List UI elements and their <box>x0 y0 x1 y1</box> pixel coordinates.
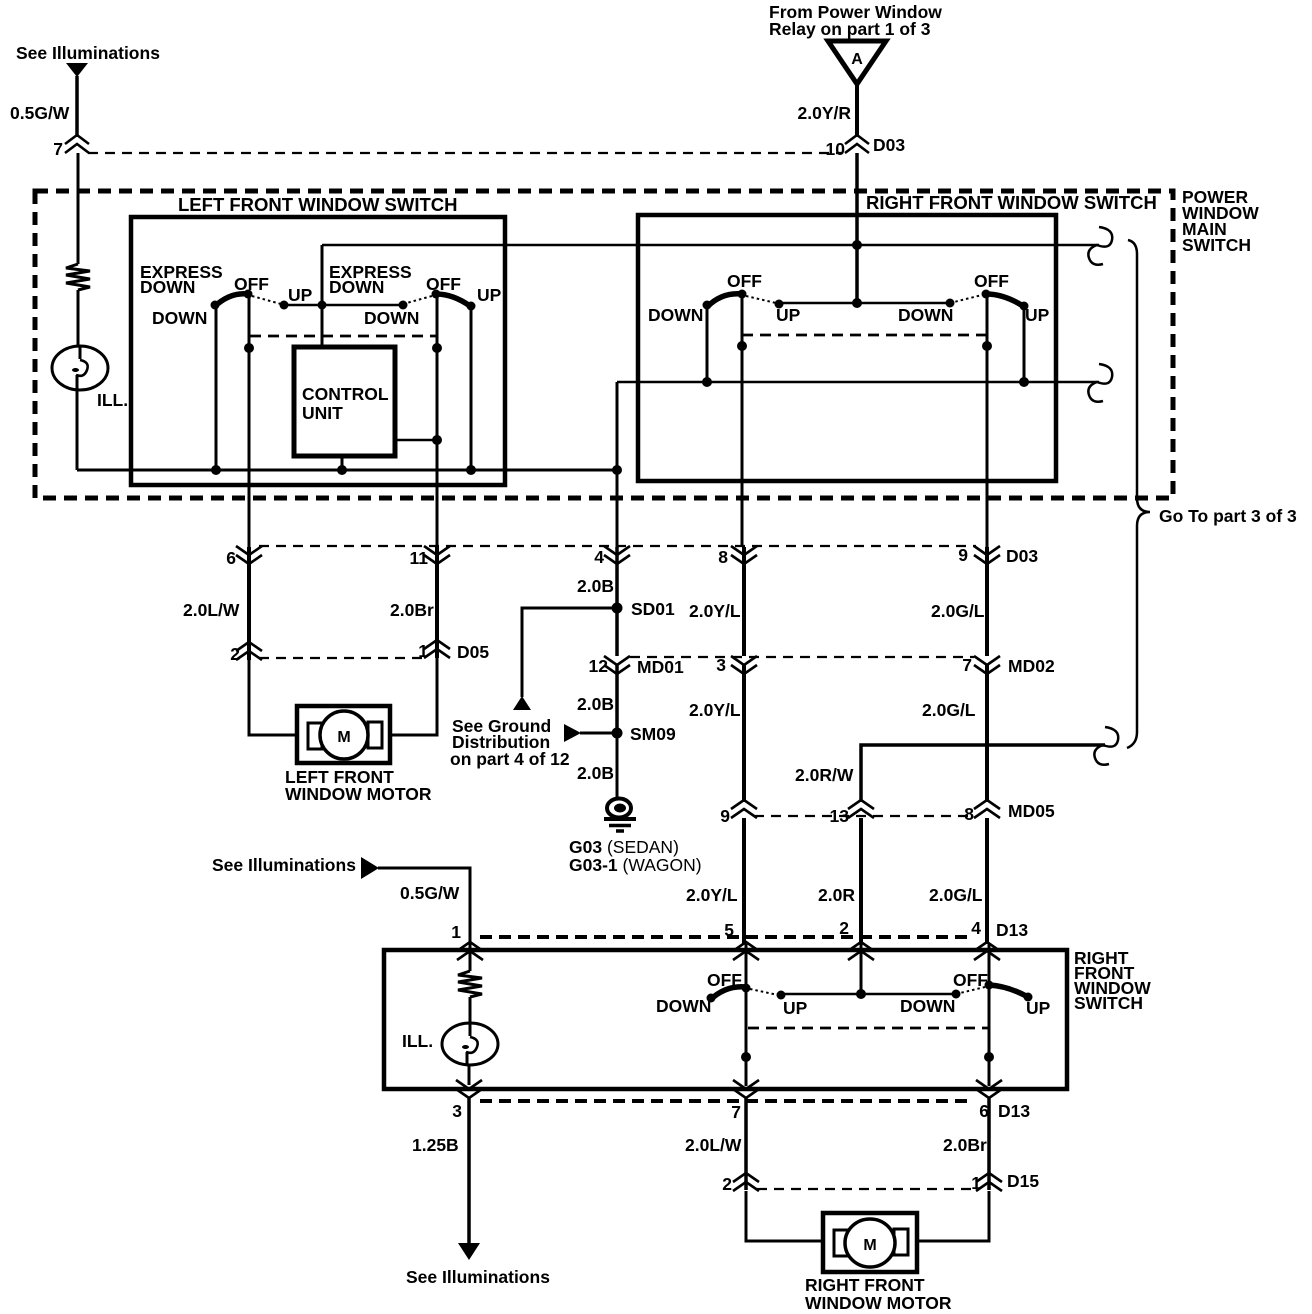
switch RF2 contact DOWN <box>946 299 955 308</box>
pin 13 connector MD05 <box>848 800 874 818</box>
wire UP1/DOWN2 contacts to control unit <box>284 304 403 307</box>
switch RF1 contact DOWN <box>703 301 712 310</box>
svg-text:DOWN: DOWN <box>900 996 955 1016</box>
wire pin 5 through pivot to pin 7 <box>745 944 748 1086</box>
label RIGHT FRONT WINDOW SWITCH (door) <box>1074 948 1151 1013</box>
wire LF2 UP contact to ground rail <box>470 306 473 470</box>
illumination resistor (door) <box>458 971 482 997</box>
wire 2.0R pin 13 to pin 2 <box>859 818 863 944</box>
wire 2.0R pin 2 to link <box>860 944 863 994</box>
svg-text:Go To part 3 of 3: Go To part 3 of 3 <box>1159 506 1297 526</box>
connector row D13 bottom dashed line <box>480 1099 974 1103</box>
svg-text:2.0B: 2.0B <box>577 576 614 596</box>
svg-text:D13: D13 <box>998 1101 1030 1121</box>
wire pin 4 through pivot to pin 6 <box>988 944 991 1086</box>
switch RFD2 contact DOWN <box>952 990 961 999</box>
label POWER WINDOW MAIN SWITCH <box>1182 187 1259 255</box>
switch LF2 lever (thick) <box>436 294 470 306</box>
junction dot control unit ground <box>337 465 347 475</box>
wire 2.0Y/R from connector A to pin 10 <box>855 84 859 137</box>
svg-text:9: 9 <box>958 545 968 565</box>
splice SM09 <box>612 728 623 739</box>
pin 4 connector D13 <box>974 942 1000 960</box>
wire LF1 DOWN contact to ground rail <box>215 305 218 470</box>
switch RF1 lever (thick) <box>707 294 742 307</box>
see ground distribution note <box>450 716 570 769</box>
illumination lamp ILL (left) <box>52 346 108 390</box>
svg-text:ILL.: ILL. <box>402 1031 433 1051</box>
svg-text:DOWN: DOWN <box>898 305 953 325</box>
label EXPRESS DOWN (switch 1) <box>140 262 223 297</box>
ground rail across main switch <box>77 469 618 472</box>
left front window switch enclosure <box>131 217 505 485</box>
wire LF1 pivot to pin 6 <box>248 294 251 547</box>
svg-text:4: 4 <box>971 918 981 938</box>
label: From Power Window Relay on part 1 of 3 <box>769 2 942 39</box>
label RIGHT FRONT WINDOW MOTOR <box>805 1275 952 1313</box>
switch RFD2 contact UP <box>1024 993 1033 1002</box>
connector row D15 dashed line <box>757 1188 976 1190</box>
pin 7 connector D13 bottom <box>733 1080 759 1098</box>
svg-text:0.5G/W: 0.5G/W <box>10 103 70 123</box>
switch RFD1 contact UP <box>777 991 786 1000</box>
wire 0.5G/W to lower switch pin 1 <box>378 868 470 944</box>
svg-text:3: 3 <box>716 655 726 675</box>
wire 2.0B pin 4 to splice SD01 <box>615 547 619 656</box>
svg-text:8: 8 <box>964 804 974 824</box>
svg-text:12: 12 <box>589 656 609 676</box>
svg-text:10: 10 <box>826 139 846 159</box>
svg-text:DOWN: DOWN <box>329 277 384 297</box>
svg-text:D03: D03 <box>1006 546 1038 566</box>
switch LF2 contact DOWN <box>399 301 408 310</box>
svg-text:UP: UP <box>477 285 502 305</box>
switch RF1 contact UP <box>775 300 784 309</box>
wire 2.0Y/L pin 8 to pin 3 <box>742 547 746 656</box>
pin 2 connector D13 <box>848 942 874 960</box>
svg-text:2: 2 <box>722 1174 732 1194</box>
ground reference arrow (up triangle) <box>513 696 531 710</box>
junction dot on pin 9 wire <box>982 341 992 351</box>
switch LF2 contact UP <box>467 302 476 311</box>
svg-text:2.0G/L: 2.0G/L <box>922 700 976 720</box>
wire control unit feed vertical <box>321 245 324 347</box>
switch RF2 dotted lever <box>950 295 982 303</box>
pin 4 connector <box>604 546 630 564</box>
svg-text:DOWN: DOWN <box>364 308 419 328</box>
wire RF2 UP contact to lower bus <box>1023 306 1026 382</box>
switch LF1 dotted lever to UP <box>252 296 281 304</box>
svg-text:DOWN: DOWN <box>656 996 711 1016</box>
switch RFD2 pivot <box>985 981 994 990</box>
wire arrow to SM09 <box>580 732 614 735</box>
svg-text:0.5G/W: 0.5G/W <box>400 883 460 903</box>
svg-text:1: 1 <box>971 1173 981 1193</box>
pin 6 connector D13 bottom <box>976 1080 1002 1098</box>
pin 6 connector <box>236 546 262 564</box>
svg-text:OFF: OFF <box>727 271 762 291</box>
svg-text:2.0Br: 2.0Br <box>943 1135 987 1155</box>
switch RF1 pivot <box>738 290 747 299</box>
wire RF1 DOWN contact to lower bus <box>706 305 709 382</box>
svg-text:See Illuminations: See Illuminations <box>16 43 160 63</box>
wire pin 1 to illumination resistor (door) <box>469 944 472 971</box>
svg-text:WINDOW MOTOR: WINDOW MOTOR <box>805 1293 952 1313</box>
svg-text:SM09: SM09 <box>630 724 676 744</box>
svg-text:See Illuminations: See Illuminations <box>212 855 356 875</box>
wire RF2 pivot to pin 9 <box>986 294 989 547</box>
svg-text:2.0R/W: 2.0R/W <box>795 765 854 785</box>
svg-text:G03-1 (WAGON): G03-1 (WAGON) <box>569 855 702 875</box>
switch RFD1 lever (thick) <box>710 987 746 1000</box>
wire 0.5G/W to pin 7 <box>75 76 79 137</box>
svg-text:SWITCH: SWITCH <box>1074 993 1143 1013</box>
mechanical link dashed (left switches) <box>250 335 436 338</box>
label CONTROL UNIT <box>302 384 389 423</box>
pin 1 connector D13 <box>457 942 483 960</box>
arrow to see illuminations (down triangle) <box>458 1243 480 1260</box>
svg-text:OFF: OFF <box>426 274 461 294</box>
svg-text:UP: UP <box>288 285 313 305</box>
lower bus wire to part 3 <box>617 381 1099 384</box>
svg-text:G03 (SEDAN): G03 (SEDAN) <box>569 837 679 857</box>
svg-text:OFF: OFF <box>974 271 1009 291</box>
svg-text:1.25B: 1.25B <box>412 1135 459 1155</box>
switch RFD2 lever (thick) <box>989 985 1028 997</box>
wire LF2 pivot to pin 11 <box>436 294 439 547</box>
switch LF2 dotted lever <box>403 296 432 304</box>
svg-text:D15: D15 <box>1007 1171 1039 1191</box>
svg-text:2.0Br: 2.0Br <box>390 600 434 620</box>
pin 1 connector D15 <box>976 1173 1002 1191</box>
pin 2 connector D05 <box>236 642 262 660</box>
wire 2.0Br pin 11 to pin 1 <box>435 547 439 658</box>
junction dot on door pin 6 wire <box>984 1052 994 1062</box>
svg-text:on part 4 of 12: on part 4 of 12 <box>450 749 570 769</box>
mechanical link dashed (door switches) <box>748 1027 989 1030</box>
wire 2.0L/W pin 6 to pin 2 <box>247 547 251 660</box>
pin 12 connector MD01 <box>604 656 630 674</box>
label EXPRESS DOWN (switch 2) <box>329 262 412 297</box>
wire 2.0L/W pin 7 to pin 2 D15 <box>744 1098 748 1190</box>
svg-text:2.0Y/L: 2.0Y/L <box>689 601 741 621</box>
svg-text:2.0G/L: 2.0G/L <box>929 885 983 905</box>
off-page connector A from power window relay <box>828 41 886 84</box>
svg-text:2.0Y/L: 2.0Y/L <box>689 700 741 720</box>
svg-text:A: A <box>851 51 863 68</box>
svg-text:2.0B: 2.0B <box>577 694 614 714</box>
wire lamp to pin 3 (door) <box>468 1065 471 1085</box>
pin 2 connector D15 <box>733 1173 759 1191</box>
switch LF1 pivot <box>244 290 253 299</box>
svg-text:RIGHT FRONT: RIGHT FRONT <box>805 1275 925 1295</box>
right front window switch enclosure (main) <box>638 215 1056 481</box>
svg-text:2.0Y/L: 2.0Y/L <box>686 885 738 905</box>
svg-text:DOWN: DOWN <box>140 277 195 297</box>
svg-text:SD01: SD01 <box>631 599 675 619</box>
svg-text:D13: D13 <box>996 920 1028 940</box>
svg-text:2: 2 <box>230 644 240 664</box>
off-page hook (lower bus) <box>1088 364 1112 402</box>
svg-text:See Illuminations: See Illuminations <box>406 1267 550 1287</box>
pin 3 connector MD02 <box>731 656 757 674</box>
svg-text:MD02: MD02 <box>1008 656 1055 676</box>
wire 2.0R/W to part 3 of 3 <box>861 745 1105 802</box>
svg-text:ILL.: ILL. <box>97 390 128 410</box>
off-page hook (2.0R/W wire) <box>1094 727 1118 765</box>
pin 8 connector MD05 <box>974 800 1000 818</box>
wire from pin 10 down into right front window switch <box>855 153 859 303</box>
junction dot rail/LF1 <box>211 465 221 475</box>
junction node at control unit feed <box>318 301 327 310</box>
junction dot on pin 6 wire <box>244 343 254 353</box>
switch LF1 lever (thick) <box>214 294 248 307</box>
svg-text:D03: D03 <box>873 135 905 155</box>
illumination lamp ILL (door) <box>442 1023 498 1065</box>
svg-text:CONTROL: CONTROL <box>302 384 389 404</box>
link wire UP1 to DOWN2 (main right box) <box>779 302 950 305</box>
svg-text:2.0G/L: 2.0G/L <box>931 601 985 621</box>
switch RFD1 pivot <box>742 984 751 993</box>
off-page hook (top bus) <box>1088 227 1112 265</box>
wire lamp to ground rail <box>76 390 79 470</box>
wire 2.0G/L pin 7 to pin 8 <box>985 665 989 802</box>
junction dot lower bus RF2 <box>1019 377 1029 387</box>
switch RF2 pivot <box>982 290 991 299</box>
pin 9 connector D03 <box>974 546 1000 564</box>
junction dot on pin 8 wire <box>737 341 747 351</box>
wire 2.0Y/L pin 3 to pin 9 <box>742 665 746 802</box>
connector row D13 top dashed line <box>480 935 974 939</box>
brace: Go To part 3 of 3 <box>1127 240 1150 748</box>
pin 1 connector D05 <box>424 640 450 658</box>
junction dot A wire to switch link <box>852 298 862 308</box>
svg-text:1: 1 <box>418 641 428 661</box>
wire 2.0B SM09 to ground G03 <box>616 733 619 799</box>
svg-text:2.0B: 2.0B <box>577 763 614 783</box>
pin 8 connector <box>731 546 757 564</box>
control unit U1 <box>294 347 395 456</box>
illumination resistor (left) <box>66 264 90 290</box>
pin 7 connector <box>65 135 89 153</box>
svg-text:D05: D05 <box>457 642 489 662</box>
wire pin 1 to left motor <box>390 658 437 735</box>
svg-text:M: M <box>863 1237 876 1254</box>
wire 2.0G/L pin 8 to pin 4 <box>985 818 989 944</box>
svg-text:MD01: MD01 <box>637 657 684 677</box>
wire lower bus to pin 4 <box>616 382 619 547</box>
right front window motor M <box>823 1213 917 1272</box>
svg-text:WINDOW MOTOR: WINDOW MOTOR <box>285 784 432 804</box>
svg-text:2.0R: 2.0R <box>818 885 855 905</box>
wire 2.0B pin 12 to splice SM09 <box>615 665 619 733</box>
pin 11 connector <box>424 546 450 564</box>
svg-text:RIGHT FRONT WINDOW SWITCH: RIGHT FRONT WINDOW SWITCH <box>866 192 1157 213</box>
svg-text:7: 7 <box>962 655 972 675</box>
junction dot control unit to pin 11 wire <box>432 435 442 445</box>
wire control unit right side to pin 11 wire <box>395 439 437 442</box>
wire pin 1 D15 to right motor <box>917 1191 989 1241</box>
arrow ground distribution (right triangle) <box>564 724 581 742</box>
svg-text:2.0L/W: 2.0L/W <box>685 1135 742 1155</box>
svg-text:13: 13 <box>830 806 850 826</box>
wire pin 7 to illumination resistor <box>77 153 80 264</box>
junction dot link / 2.0R <box>856 989 866 999</box>
svg-text:2.0L/W: 2.0L/W <box>183 600 240 620</box>
svg-text:M: M <box>337 729 350 746</box>
switch RFD1 contact DOWN <box>707 994 716 1003</box>
pin 3 connector D13 bottom <box>456 1080 482 1098</box>
switch RF2 lever (thick) <box>986 294 1023 306</box>
svg-text:DOWN: DOWN <box>648 305 703 325</box>
svg-text:2: 2 <box>839 918 849 938</box>
connector row D03/main dashed line <box>259 545 976 547</box>
pin 9 connector MD05 <box>731 800 757 818</box>
svg-text:UP: UP <box>783 998 808 1018</box>
connector row MD01 dashed line <box>630 656 974 658</box>
junction dot ground rail to pin 4 wire <box>612 465 622 475</box>
splice SD01 <box>612 603 623 614</box>
svg-text:2.0Y/R: 2.0Y/R <box>798 103 852 123</box>
svg-text:Relay on part 1 of 3: Relay on part 1 of 3 <box>769 19 931 39</box>
wire pin 2 D15 to right motor <box>746 1191 823 1241</box>
switch RFD2 dotted lever <box>956 987 985 994</box>
POWER WINDOW MAIN SWITCH dashed boundary <box>35 191 1173 498</box>
svg-text:7: 7 <box>53 139 63 159</box>
switch RF2 contact UP <box>1020 302 1029 311</box>
junction dot lower bus RF1 <box>702 377 712 387</box>
dashed connector boundary line at top <box>88 152 842 154</box>
svg-text:9: 9 <box>720 806 730 826</box>
svg-text:8: 8 <box>718 547 728 567</box>
switch LF2 pivot <box>432 290 441 299</box>
label LEFT FRONT WINDOW MOTOR <box>285 767 432 804</box>
svg-text:1: 1 <box>451 922 461 942</box>
svg-text:UNIT: UNIT <box>302 403 343 423</box>
svg-text:LEFT FRONT WINDOW SWITCH: LEFT FRONT WINDOW SWITCH <box>178 194 458 215</box>
wire RF1 pivot to pin 8 <box>741 294 744 547</box>
svg-text:6: 6 <box>226 548 236 568</box>
svg-text:7: 7 <box>731 1102 741 1122</box>
wire 2.0G/L pin 9 to pin 7 <box>985 547 989 656</box>
ground G03 symbol <box>604 799 636 832</box>
svg-text:MD05: MD05 <box>1008 801 1055 821</box>
connector row MD05 dashed line <box>754 815 974 817</box>
wire control unit to ground rail <box>341 456 344 470</box>
arrow see illuminations (right triangle) <box>361 857 379 879</box>
switch LF1 contact UP <box>280 301 289 310</box>
link wire UP1 to DOWN2 (door box) <box>781 993 956 996</box>
connector row D05 dashed line <box>259 657 424 659</box>
wire resistor to lamp (door) <box>469 997 472 1024</box>
wire 2.0Y/L pin 9 to pin 5 <box>742 818 746 944</box>
wire resistor to illumination lamp <box>77 290 80 347</box>
mechanical link dashed (main right switches) <box>742 334 986 337</box>
wire pin 2 to left motor <box>249 660 297 735</box>
pin 5 connector D13 <box>733 942 759 960</box>
bus wire to right front window switch and part 3 (top) <box>322 244 1099 247</box>
junction dot on door pin 7 wire <box>741 1052 751 1062</box>
svg-text:SWITCH: SWITCH <box>1182 235 1251 255</box>
junction dot on pin 11 wire <box>432 343 442 353</box>
svg-text:11: 11 <box>410 548 429 568</box>
switch LF1 contact DOWN <box>211 301 220 310</box>
switch RF1 dotted lever <box>746 296 776 303</box>
wire 2.0Br pin 6 to pin 1 D15 <box>987 1098 991 1190</box>
arrow to illuminations (filled triangle) <box>66 63 88 77</box>
junction dot bus / A wire <box>852 240 862 250</box>
switch RFD1 dotted lever <box>750 989 778 995</box>
svg-text:UP: UP <box>1025 305 1050 325</box>
svg-text:4: 4 <box>594 547 604 567</box>
wire SD01 to ground reference <box>522 608 617 697</box>
pin 10 connector D03 <box>845 135 869 153</box>
junction dot rail/LF2 UP <box>466 465 476 475</box>
pin 7 connector MD02 <box>974 656 1000 674</box>
svg-text:OFF: OFF <box>234 274 269 294</box>
svg-text:DOWN: DOWN <box>152 308 207 328</box>
svg-text:3: 3 <box>452 1101 462 1121</box>
left front window motor M <box>297 706 390 763</box>
wire 1.25B pin 3 to illuminations <box>467 1098 471 1245</box>
right front window switch enclosure (door) <box>384 950 1067 1089</box>
svg-text:5: 5 <box>724 920 734 940</box>
